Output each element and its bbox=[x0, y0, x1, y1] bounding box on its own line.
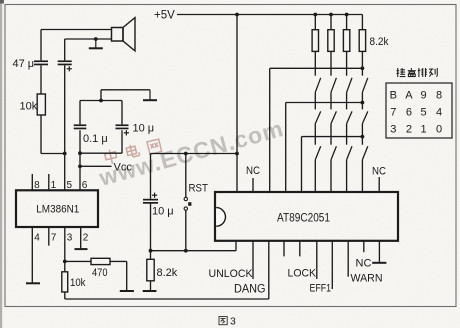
svg-text:LOCK: LOCK bbox=[288, 268, 317, 280]
svg-text:3: 3 bbox=[390, 123, 396, 135]
svg-text:0: 0 bbox=[436, 123, 442, 135]
svg-text:+5V: +5V bbox=[154, 10, 175, 22]
svg-text:9: 9 bbox=[420, 90, 426, 102]
svg-text:RST: RST bbox=[189, 183, 209, 195]
svg-text:10k: 10k bbox=[20, 101, 38, 113]
svg-text:LM386N1: LM386N1 bbox=[36, 204, 79, 216]
svg-text:NC: NC bbox=[372, 166, 386, 178]
svg-text:7: 7 bbox=[390, 106, 396, 118]
svg-text:NC: NC bbox=[246, 165, 260, 177]
svg-text:470: 470 bbox=[92, 267, 108, 279]
svg-text:3: 3 bbox=[230, 316, 236, 328]
svg-text:NC: NC bbox=[356, 258, 372, 270]
svg-text:5: 5 bbox=[420, 106, 426, 118]
svg-text:47 μ: 47 μ bbox=[13, 58, 35, 70]
svg-text:Vcc: Vcc bbox=[114, 162, 133, 174]
svg-text:5: 5 bbox=[67, 180, 73, 191]
svg-text:1: 1 bbox=[420, 123, 426, 135]
svg-text:10k: 10k bbox=[70, 277, 86, 289]
svg-text:4: 4 bbox=[436, 106, 442, 118]
svg-text:8: 8 bbox=[436, 90, 442, 102]
svg-text:EFF1: EFF1 bbox=[310, 283, 332, 295]
svg-text:6: 6 bbox=[82, 180, 88, 191]
svg-text:8.2k: 8.2k bbox=[157, 267, 178, 279]
svg-text:DANG: DANG bbox=[234, 284, 266, 296]
svg-text:4: 4 bbox=[34, 233, 40, 244]
svg-text:10 μ: 10 μ bbox=[152, 206, 174, 218]
svg-text:8.2k: 8.2k bbox=[370, 36, 389, 48]
svg-text:10 μ: 10 μ bbox=[133, 123, 155, 135]
svg-text:B: B bbox=[390, 90, 397, 102]
svg-text:1: 1 bbox=[51, 180, 57, 191]
svg-text:7: 7 bbox=[51, 233, 57, 244]
svg-text:6: 6 bbox=[406, 106, 412, 118]
svg-text:A: A bbox=[405, 90, 413, 102]
svg-text:2: 2 bbox=[83, 233, 89, 244]
svg-text:8: 8 bbox=[34, 180, 40, 191]
svg-text:2: 2 bbox=[406, 123, 412, 135]
svg-text:0.1 μ: 0.1 μ bbox=[83, 133, 108, 145]
svg-text:UNLOCK: UNLOCK bbox=[209, 268, 254, 280]
svg-text:3: 3 bbox=[67, 233, 73, 244]
svg-text:WARN: WARN bbox=[351, 273, 383, 285]
svg-text:AT89C2051: AT89C2051 bbox=[277, 213, 330, 225]
